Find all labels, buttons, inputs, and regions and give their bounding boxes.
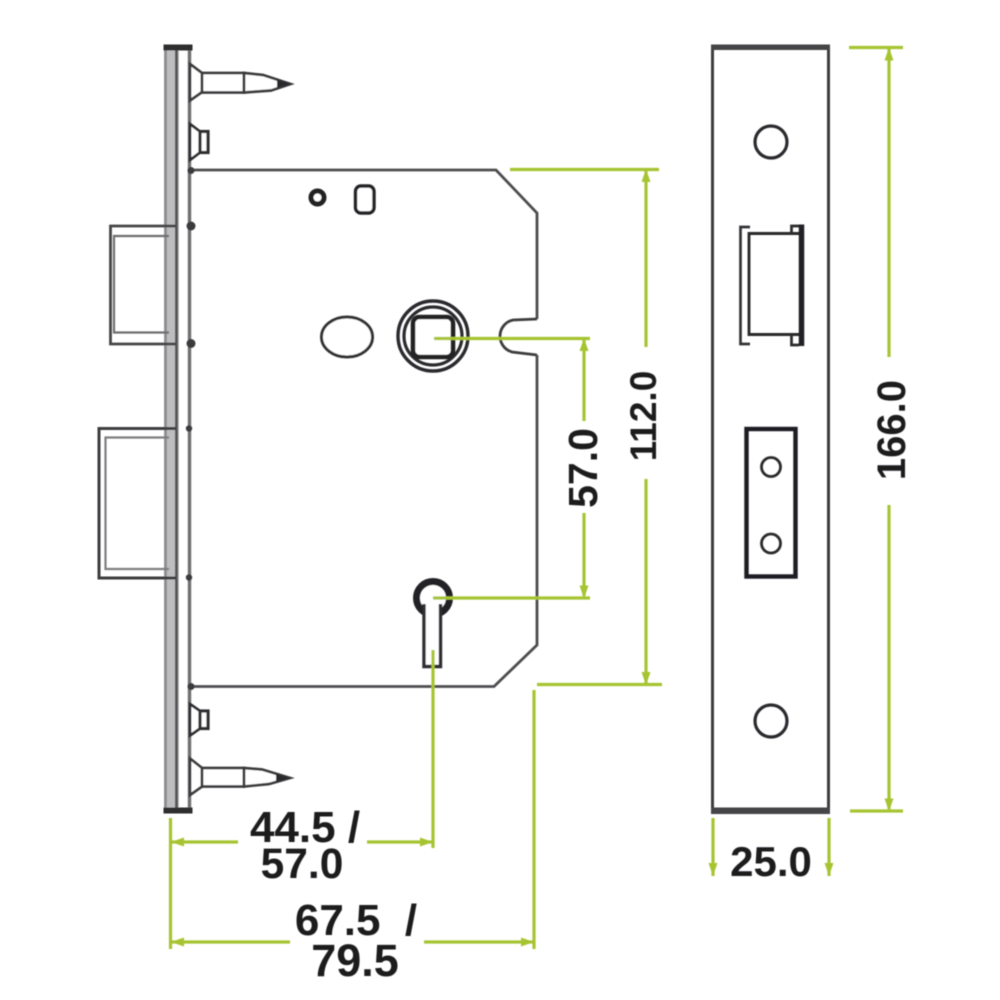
svg-text:79.5: 79.5 [311,935,399,986]
case edge extension down [532,690,535,949]
bottom screw head profile [190,704,208,736]
dim 44.5/57.0 line [172,840,238,843]
keyhole extension down [431,650,434,848]
deadbolt (side view) [99,429,176,579]
deadbolt cutout [747,429,796,577]
dim 67.5/79.5 line [172,940,290,943]
keyhole [417,582,450,667]
plate outline [711,45,830,814]
latch cutout [741,225,802,347]
dim 57.0 extension lines [434,337,590,340]
small slot in case top [356,186,375,213]
dim 112.0 extension lines [510,168,659,171]
faceplate (side view) [164,45,193,814]
follower notch in case edge [500,319,537,355]
dim 112.0 line [644,171,647,347]
top screw head profile [190,124,208,160]
latch bolt (side view) [111,226,177,344]
junction bumps on faceplate [186,167,196,690]
svg-text:57.0: 57.0 [261,841,344,888]
svg-text:25.0: 25.0 [730,838,812,885]
faceplate extension down [169,818,172,949]
plate top screw hole [755,126,787,158]
dim 166.0 extension lines [849,46,903,49]
spindle follower [398,301,468,371]
svg-text:57.0: 57.0 [560,428,606,508]
oval hole [322,317,373,357]
green arrowheads [171,48,894,947]
top wood screw [190,64,291,101]
svg-text:166.0: 166.0 [870,380,914,480]
lock case body outline [190,170,537,687]
dim 57.0 line [582,340,585,421]
bottom wood screw [190,759,290,796]
svg-text:112.0: 112.0 [623,371,664,462]
dim 25.0 extension lines [711,818,714,876]
plate bottom screw hole [755,705,787,737]
dim 166.0 line [887,49,890,357]
small hole in case top [311,191,324,204]
